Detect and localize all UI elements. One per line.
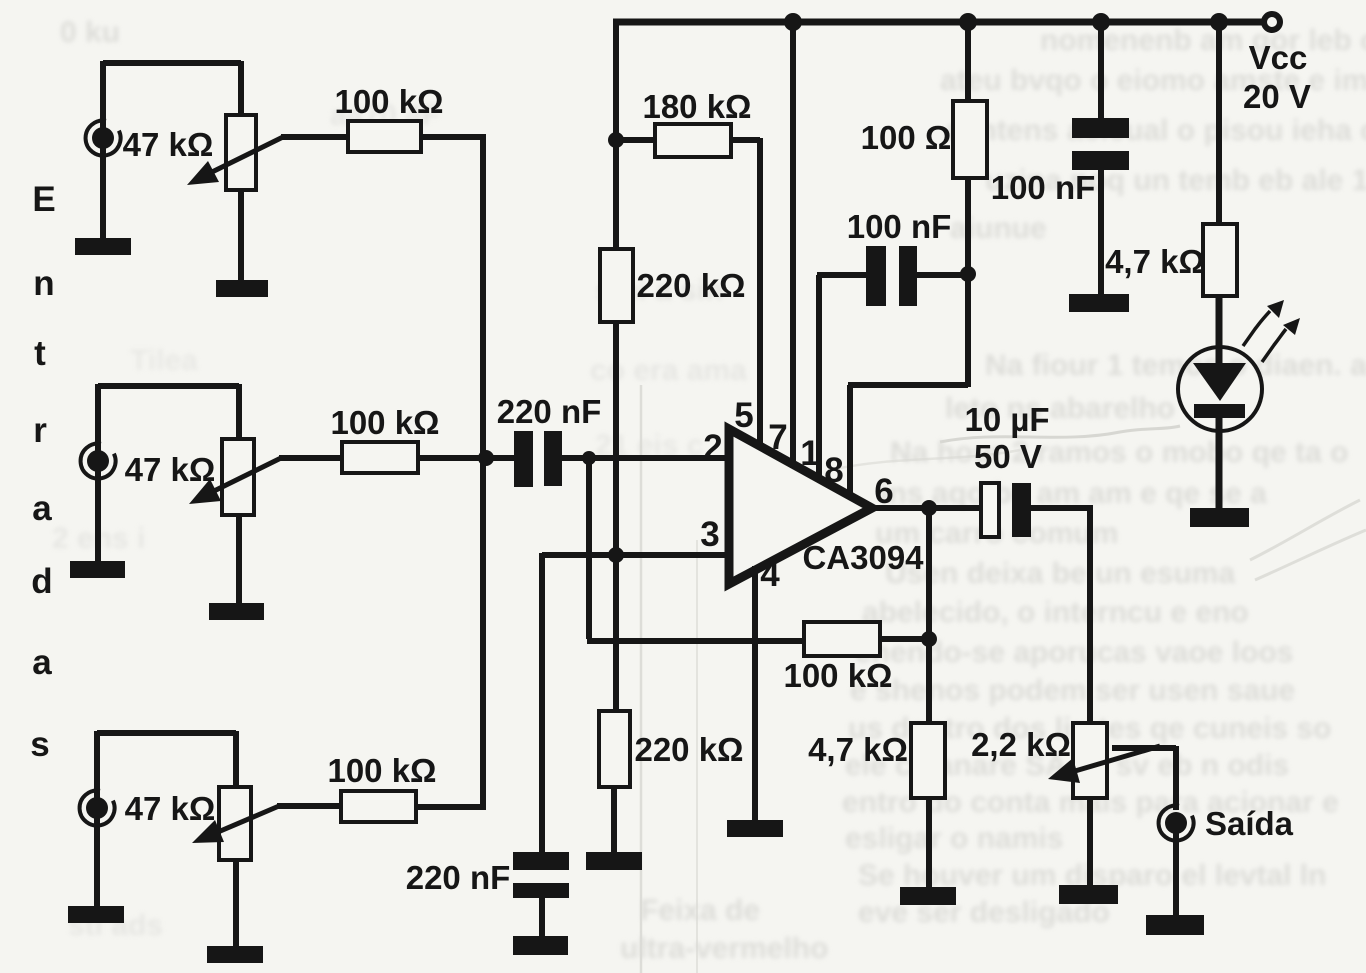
svg-text:220 nF: 220 nF xyxy=(497,393,602,430)
ground C2 xyxy=(513,936,568,955)
ground pot3 xyxy=(207,946,263,963)
svg-text:a: a xyxy=(32,489,52,528)
wire R4 from rail xyxy=(965,19,971,103)
potentiometer 47k P1 body xyxy=(226,115,256,190)
svg-text:100 nF: 100 nF xyxy=(991,169,1096,206)
input 1 jack J1 xyxy=(92,127,114,149)
wire R5 to LED xyxy=(1216,295,1223,364)
wire 220k line down to lower 220k xyxy=(613,322,619,713)
svg-text:2: 2 xyxy=(703,428,722,467)
ground P4 xyxy=(1059,885,1118,904)
wire Vcc rail xyxy=(613,19,1265,26)
svg-text:50 V: 50 V xyxy=(974,438,1042,475)
wire R7 right lead xyxy=(878,636,931,642)
svg-text:1: 1 xyxy=(800,434,819,473)
ground input2 jack xyxy=(70,561,125,578)
svg-text:Feixa de: Feixa de xyxy=(640,894,760,927)
svg-text:nomenenb am qor leb o: nomenenb am qor leb o xyxy=(1040,24,1366,57)
Vcc terminal xyxy=(1264,14,1280,30)
svg-text:4: 4 xyxy=(760,555,780,594)
wire R5 from rail xyxy=(1216,19,1222,226)
svg-text:220 nF: 220 nF xyxy=(406,859,511,896)
wire P4 bottom to ground xyxy=(1087,797,1093,887)
svg-text:7: 7 xyxy=(768,418,787,457)
wire pot3 bottom xyxy=(233,859,239,948)
svg-text:220 kΩ: 220 kΩ xyxy=(636,267,745,304)
ground R6 xyxy=(900,887,956,905)
P4 wiper arrow xyxy=(1075,746,1160,771)
wire pot1 bottom xyxy=(238,189,244,282)
wire R1 to bus xyxy=(420,134,486,140)
potentiometer 47k P3 body xyxy=(219,787,251,860)
wire pot2 bottom xyxy=(236,514,242,605)
node 180k junction xyxy=(608,132,624,148)
svg-text:t: t xyxy=(34,334,46,373)
ground lower 220k xyxy=(586,852,642,870)
wire Saida jack to ground xyxy=(1173,831,1179,917)
wire R2 through bus to C1 xyxy=(417,455,514,461)
svg-text:100 kΩ: 100 kΩ xyxy=(330,404,439,441)
LED light arrows xyxy=(1243,311,1270,346)
svg-text:10 µF: 10 µF xyxy=(964,401,1049,438)
svg-text:abelecido, o interncu e eno: abelecido, o interncu e eno xyxy=(862,596,1249,629)
wire 180k/220k branch from rail xyxy=(613,19,619,249)
ground C4 xyxy=(1069,294,1129,312)
svg-text:6: 6 xyxy=(874,472,893,511)
ground input3 jack xyxy=(68,906,124,923)
node pin3 tap xyxy=(608,547,624,563)
wire C5 to P4 xyxy=(1031,505,1090,725)
svg-text:Na fiour 1 temos o diaen. aor: Na fiour 1 temos o diaen. aor xyxy=(985,349,1366,382)
svg-text:180 kΩ: 180 kΩ xyxy=(642,88,751,125)
svg-text:e shenos podem ser usen saue: e shenos podem ser usen saue xyxy=(850,674,1295,707)
wire P4 wiper to output jack xyxy=(1112,746,1176,810)
wire R6 to ground xyxy=(926,797,932,889)
svg-text:100 Ω: 100 Ω xyxy=(861,119,952,156)
svg-text:20 V: 20 V xyxy=(1243,78,1311,115)
resistor 100k R1 xyxy=(348,121,421,152)
capacitor 220nF C2 bottom xyxy=(513,852,569,870)
wire LED cathode to ground xyxy=(1216,416,1223,510)
ground pot2 xyxy=(209,603,264,620)
input 3 jack stem and ground wire xyxy=(94,731,100,908)
capacitor 100nF C4 xyxy=(1072,118,1129,138)
ground LED xyxy=(1190,508,1249,527)
wire C1 to pin 2 xyxy=(562,455,731,461)
node feedback tap xyxy=(582,451,596,465)
svg-text:Saída: Saída xyxy=(1205,805,1294,842)
wire input mixing bus xyxy=(480,134,486,810)
wire lower 220k to ground xyxy=(611,786,617,853)
wire pot3 wiper to R3 xyxy=(277,803,343,809)
wire pin 4 to ground xyxy=(752,566,758,822)
capacitor 10uF C5 xyxy=(981,483,999,537)
scan fold line (decorative) xyxy=(640,385,643,973)
svg-text:aiunue: aiunue xyxy=(950,212,1047,245)
node rail R5 xyxy=(1210,13,1228,31)
resistor 100 Ohm R4 xyxy=(953,101,987,178)
node C3/R4/pin8 junction xyxy=(960,266,976,282)
svg-text:Usen deixa be un esuma: Usen deixa be un esuma xyxy=(885,557,1235,590)
ground Saida xyxy=(1146,915,1204,935)
resistor 4.7k R6 xyxy=(911,723,945,798)
svg-text:47 kΩ: 47 kΩ xyxy=(125,451,216,488)
svg-text:4,7 kΩ: 4,7 kΩ xyxy=(1105,243,1205,280)
resistor 100k R3 xyxy=(341,791,416,822)
node rail pin7 xyxy=(784,13,802,31)
pot1 wiper arrow xyxy=(212,137,283,172)
svg-text:CA3094: CA3094 xyxy=(802,539,924,576)
svg-text:220 kΩ: 220 kΩ xyxy=(634,731,743,768)
input 3 jack J3 xyxy=(86,797,108,819)
node output junction xyxy=(921,500,937,516)
svg-text:47 kΩ: 47 kΩ xyxy=(123,126,214,163)
svg-text:E: E xyxy=(32,180,55,219)
svg-text:4,7 kΩ: 4,7 kΩ xyxy=(808,731,908,768)
input 2: wire top xyxy=(98,384,239,441)
resistor 100k R2 xyxy=(342,442,418,473)
wire pot1 wiper to R1 xyxy=(281,134,350,140)
wire pin 7 from rail xyxy=(790,19,796,468)
svg-text:100 kΩ: 100 kΩ xyxy=(783,657,892,694)
wire C4 from rail xyxy=(1098,19,1104,120)
svg-text:Na hour 2 ramos o mobo qe ta o: Na hour 2 ramos o mobo qe ta o xyxy=(890,436,1348,469)
svg-text:100 kΩ: 100 kΩ xyxy=(327,752,436,789)
pot2 wiper arrow xyxy=(214,458,281,491)
wire C2 to ground xyxy=(539,897,545,938)
ground pin 4 xyxy=(727,820,783,837)
potentiometer 47k P2 body xyxy=(222,439,254,515)
ground input1 jack xyxy=(75,238,131,255)
input 1 jack stem and ground wire xyxy=(100,61,106,240)
wire pin 1 up to C3 xyxy=(816,275,822,482)
input 2 jack stem and ground wire xyxy=(95,384,101,563)
resistor 220 kOhm lower xyxy=(599,711,630,787)
svg-text:s: s xyxy=(30,725,49,764)
svg-text:a: a xyxy=(32,643,52,682)
resistor 4.7k R5 xyxy=(1203,224,1237,296)
wire pin 6 output xyxy=(869,505,983,511)
wire 180k left lead xyxy=(613,137,656,143)
node rail R4 xyxy=(959,13,977,31)
op-amp U1 CA3094 xyxy=(729,429,872,584)
capacitor 220nF C1 xyxy=(514,431,533,487)
svg-text:100 nF: 100 nF xyxy=(847,208,952,245)
ground pot1 xyxy=(216,280,268,297)
capacitor 100nF C3 xyxy=(817,272,866,278)
wire feedback down and right to R7 xyxy=(587,458,804,641)
svg-text:5: 5 xyxy=(734,396,753,435)
svg-text:d: d xyxy=(31,562,52,601)
LED D1 xyxy=(1178,347,1262,431)
input 3: wire top xyxy=(97,731,236,789)
input 1: wire top xyxy=(103,61,241,117)
node feedback/output junction xyxy=(921,631,937,647)
svg-text:Vcc: Vcc xyxy=(1249,39,1308,76)
svg-text:ultra-vermelho: ultra-vermelho xyxy=(620,932,828,965)
svg-text:2,2 kΩ: 2,2 kΩ xyxy=(971,726,1071,763)
wire pot2 wiper to R2 xyxy=(279,455,344,461)
wire R3 to bus bottom xyxy=(415,804,486,810)
svg-text:r: r xyxy=(33,411,47,450)
svg-text:100 kΩ: 100 kΩ xyxy=(334,83,443,120)
node bus input2 junction xyxy=(478,450,494,466)
resistor 220 kOhm upper xyxy=(600,249,633,322)
svg-text:Tilea: Tilea xyxy=(130,344,198,377)
wire pin 8 up over to C3/R4 junction xyxy=(848,275,968,499)
wire C4 to ground xyxy=(1098,170,1104,296)
resistor 180 kOhm xyxy=(655,124,731,157)
wire pin 3 from C2 corner xyxy=(542,553,731,853)
svg-text:esligar o namis: esligar o namis xyxy=(845,822,1063,855)
svg-text:n: n xyxy=(33,264,54,303)
pencil scribbles (decorative) xyxy=(940,426,1180,442)
output jack Saida xyxy=(1165,812,1187,834)
input 2 jack J2 xyxy=(87,450,109,472)
potentiometer 2.2k P4 body xyxy=(1073,723,1107,798)
pot3 wiper arrow xyxy=(218,806,279,832)
wire 180k right lead to pin 5 xyxy=(730,138,760,451)
node rail C4 xyxy=(1092,13,1110,31)
svg-text:47 kΩ: 47 kΩ xyxy=(125,790,216,827)
wire R4 bottom xyxy=(965,176,971,274)
wire output down to R6 xyxy=(926,508,932,725)
svg-text:0 ku: 0 ku xyxy=(60,16,120,49)
svg-text:8: 8 xyxy=(824,451,843,490)
resistor 100k R7 feedback xyxy=(804,622,880,656)
svg-text:aimtens acicual o pisou ieha c: aimtens acicual o pisou ieha c xyxy=(945,114,1366,147)
svg-text:3: 3 xyxy=(700,515,719,554)
